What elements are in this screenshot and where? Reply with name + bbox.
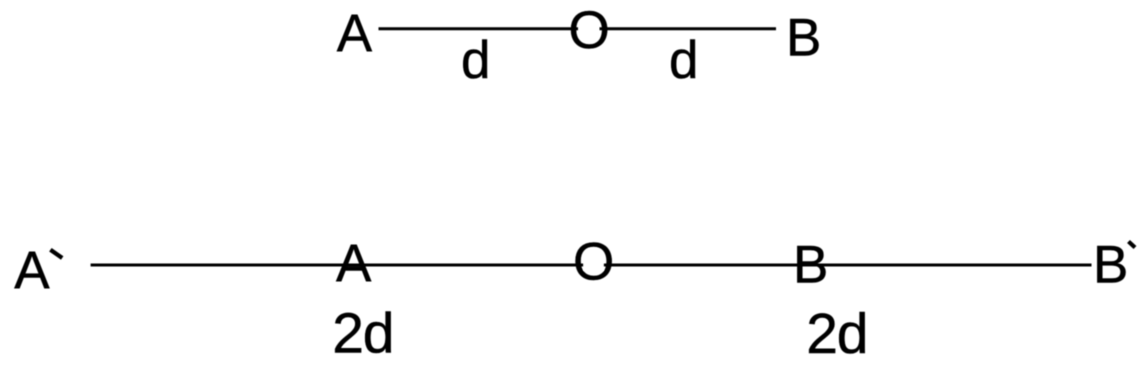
svg-text:B: B	[786, 9, 821, 68]
svg-text:d: d	[461, 31, 490, 90]
svg-text:O: O	[569, 1, 610, 60]
svg-text:d: d	[669, 31, 698, 90]
svg-text:B: B	[793, 235, 828, 294]
svg-text:2d: 2d	[806, 302, 867, 366]
svg-text:A: A	[14, 241, 50, 300]
svg-text:A: A	[337, 4, 373, 63]
wire (top line, right half from O to B)	[600, 27, 777, 30]
wire (bottom long line from A` to B`)	[91, 264, 1092, 267]
node O (bottom midpoint, white interior over line)	[584, 260, 604, 271]
svg-text:A: A	[336, 234, 372, 293]
svg-text:2d: 2d	[332, 301, 393, 365]
wire (top line, left half from A to O)	[379, 27, 579, 30]
node O (top midpoint, white interior over line)	[580, 24, 598, 34]
svg-text:O: O	[573, 232, 614, 291]
svg-text:B: B	[1093, 236, 1128, 295]
